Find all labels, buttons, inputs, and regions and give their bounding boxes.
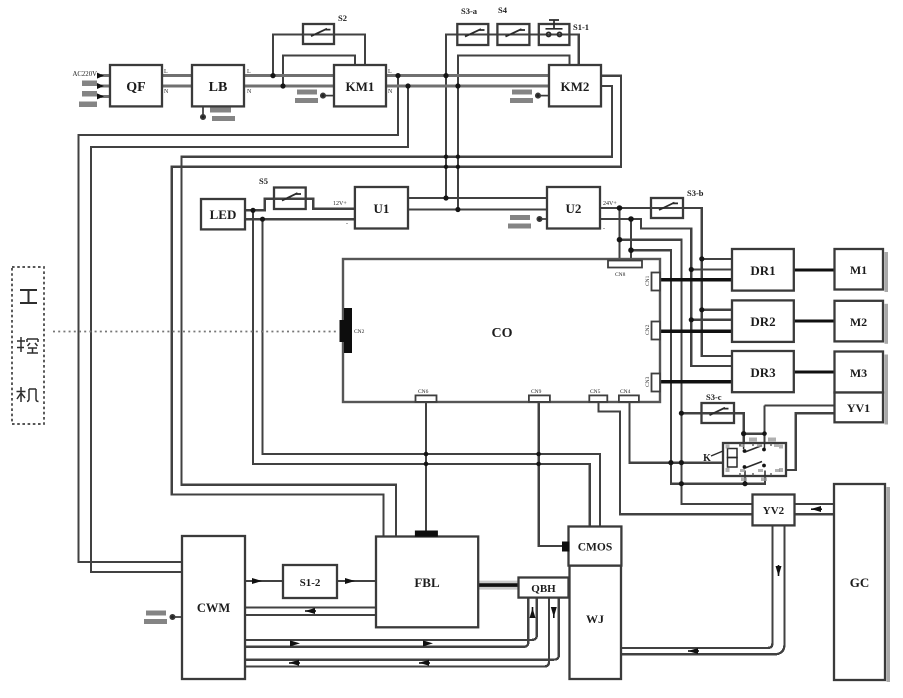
svg-text:CN5: CN5 [590, 389, 601, 395]
svg-text:QF: QF [126, 80, 145, 95]
svg-text:AC220V: AC220V [72, 71, 97, 78]
svg-text:GC: GC [850, 575, 870, 590]
svg-text:CN9: CN9 [531, 389, 542, 395]
svg-text:YV2: YV2 [763, 505, 785, 517]
svg-text:L: L [164, 69, 168, 75]
svg-text:DR2: DR2 [750, 314, 775, 329]
svg-text:DR1: DR1 [750, 263, 775, 278]
svg-text:S1-2: S1-2 [300, 577, 321, 589]
svg-text:CN3: CN3 [645, 376, 651, 387]
svg-text:CO: CO [492, 326, 513, 341]
svg-text:S5: S5 [259, 176, 268, 186]
svg-text:S4: S4 [498, 5, 508, 15]
svg-text:CN8: CN8 [615, 272, 626, 278]
svg-text:KM2: KM2 [561, 79, 590, 94]
svg-text:L: L [388, 69, 392, 75]
svg-text:CN2: CN2 [645, 324, 651, 335]
svg-text:M3: M3 [850, 366, 867, 380]
svg-text:N: N [388, 89, 393, 95]
svg-text:N: N [164, 89, 169, 95]
svg-text:U1: U1 [374, 201, 390, 216]
svg-text:FBL: FBL [414, 575, 440, 590]
svg-text:KM1: KM1 [346, 79, 375, 94]
svg-text:L: L [247, 69, 251, 75]
svg-text:DR3: DR3 [750, 365, 776, 380]
svg-text:S3-c: S3-c [706, 392, 722, 402]
svg-text:12V+: 12V+ [333, 201, 347, 207]
svg-text:S1-1: S1-1 [573, 22, 589, 32]
svg-text:CN6: CN6 [418, 389, 429, 395]
svg-text:CN2: CN2 [354, 329, 365, 335]
svg-text:YV1: YV1 [847, 401, 870, 415]
svg-text:U2: U2 [566, 201, 582, 216]
svg-text:24V+: 24V+ [603, 201, 617, 207]
svg-text:CN1: CN1 [645, 275, 651, 286]
svg-text:N: N [247, 89, 252, 95]
svg-text:CN4: CN4 [620, 389, 631, 395]
svg-text:LED: LED [210, 207, 237, 222]
svg-text:LB: LB [209, 80, 228, 95]
svg-text:CMOS: CMOS [578, 542, 613, 554]
svg-text:K: K [703, 453, 711, 464]
svg-text:-: - [603, 226, 605, 232]
svg-text:CWM: CWM [197, 601, 231, 615]
svg-text:WJ: WJ [586, 612, 604, 626]
svg-text:QBH: QBH [531, 583, 556, 595]
svg-text:M2: M2 [850, 315, 867, 329]
svg-text:S3-b: S3-b [687, 188, 704, 198]
svg-text:M1: M1 [850, 263, 867, 277]
svg-text:-: - [346, 221, 348, 227]
svg-text:S2: S2 [338, 13, 347, 23]
svg-text:S3-a: S3-a [461, 6, 478, 16]
